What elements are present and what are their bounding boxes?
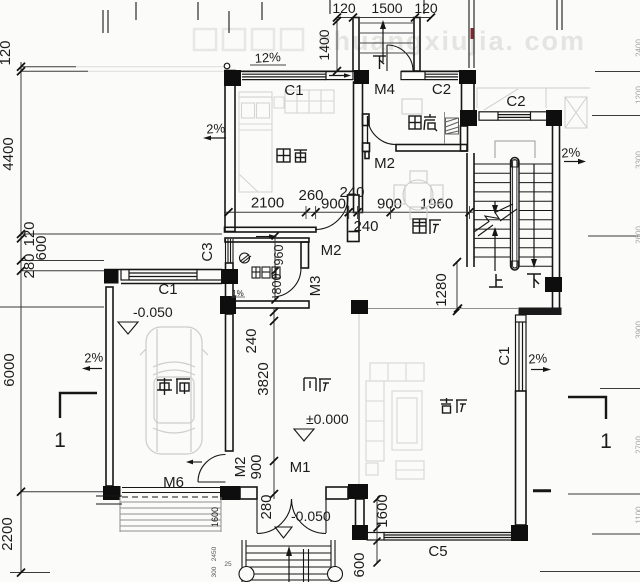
svg-text:2%: 2%: [206, 120, 226, 136]
svg-text:3300: 3300: [635, 151, 640, 169]
svg-text:1: 1: [600, 430, 612, 453]
svg-text:2%: 2%: [561, 144, 581, 160]
svg-text:2200: 2200: [0, 517, 16, 550]
svg-text:-0.050: -0.050: [291, 508, 331, 524]
wall: back stair landing east: [414, 18, 420, 72]
wall: living east below window: [516, 391, 527, 525]
room label: garage (che ku): [157, 378, 190, 395]
svg-text:C2: C2: [506, 93, 525, 110]
svg-text:C1: C1: [158, 281, 177, 298]
wall: kitchen east lower: [461, 126, 468, 151]
svg-text:4400: 4400: [0, 137, 17, 170]
left dimension line: [0, 62, 222, 573]
door M2 (garage-foyer): [198, 455, 226, 483]
column: stair SE: [545, 277, 562, 292]
svg-text:M2: M2: [321, 242, 342, 259]
svg-text:120: 120: [0, 40, 14, 65]
wall: kitchen south: [396, 145, 467, 152]
svg-text:6000: 6000: [1, 353, 18, 386]
room label: living (ke ting): [440, 398, 467, 413]
stair treads: [474, 164, 553, 266]
wall: stair east: [552, 126, 554, 308]
room label: foyer (men ting): [304, 378, 331, 392]
garage door M6 lines: [122, 488, 220, 493]
exterior ground lines near stair: [546, 87, 590, 89]
svg-text:M6: M6: [163, 474, 184, 491]
room label: bedroom (wo shi): [277, 149, 307, 162]
car (garage): [140, 327, 208, 454]
foyer/living light boundary: [358, 314, 360, 484]
top dimension ticks: [333, 14, 435, 76]
door M2 (kitchen): [367, 116, 369, 144]
svg-text:2%: 2%: [84, 349, 104, 365]
svg-text:3900: 3900: [635, 321, 640, 339]
small arrow near garage door: [190, 461, 202, 463]
svg-text:C1: C1: [496, 346, 513, 365]
wall: garage east / foyer west: [226, 314, 234, 451]
room label: dining (can ting): [413, 219, 441, 234]
svg-text:240: 240: [243, 328, 260, 353]
svg-text:960: 960: [272, 245, 286, 266]
right edge tiny dimension texts (clipped): [635, 39, 640, 524]
stair railing: [511, 158, 520, 271]
stair down arrow fragment (upper flight): [494, 201, 496, 209]
stair upper landing outline: [495, 141, 535, 158]
svg-text:C1: C1: [284, 82, 303, 99]
svg-text:M3: M3: [307, 276, 324, 297]
svg-text:1600: 1600: [210, 507, 220, 527]
svg-text:280: 280: [21, 253, 38, 278]
svg-text:2%: 2%: [528, 350, 548, 366]
wall: living north (solid): [519, 308, 562, 316]
section trace bar (near living room): [533, 489, 551, 492]
svg-text:1280: 1280: [433, 273, 450, 306]
svg-text:C5: C5: [428, 543, 447, 560]
wall: bathroom west below window: [226, 263, 234, 301]
column: foyer SE: [348, 484, 368, 499]
wall: garage north (outer+inner): [104, 269, 222, 271]
svg-text:900: 900: [248, 454, 265, 479]
wall: bedroom east / kitchen west: [354, 82, 363, 213]
svg-text:1600: 1600: [374, 494, 391, 527]
wardrobe (bedroom): [285, 90, 334, 113]
door M3 (bathroom): [272, 268, 301, 297]
slope arrow 12% inside sill: [329, 75, 347, 77]
wall: bedroom/kitchen north outer edge: [224, 70, 369, 72]
svg-text:300: 300: [211, 566, 218, 577]
svg-text:25: 25: [224, 561, 232, 568]
wall: bathroom north: [225, 238, 309, 242]
section mark 1 (left): [60, 393, 97, 418]
svg-text:M4: M4: [374, 81, 395, 98]
window C2 stair north: [479, 112, 547, 120]
right side extension lines: [540, 72, 640, 572]
svg-text:1500: 1500: [371, 0, 402, 16]
left dimension ticks: [17, 63, 25, 577]
svg-text:1400: 1400: [316, 29, 332, 60]
kitchen fridge: [402, 99, 422, 114]
dim 1600/600 right of entrance: [376, 499, 378, 563]
top dimension line (back stair): [337, 17, 431, 71]
bed (bedroom): [239, 92, 272, 192]
svg-text:C2: C2: [432, 81, 451, 98]
floor drain symbol: [240, 253, 252, 263]
wall: stair west: [466, 153, 468, 267]
column: garage NW: [104, 269, 119, 284]
wall: foyer south right piece: [326, 487, 348, 499]
column: bedroom NE: [354, 70, 369, 84]
top dimension labels 120 1500 120: [332, 0, 438, 16]
svg-text:M1: M1: [290, 459, 311, 476]
door M2 (bedroom south): [315, 197, 348, 230]
svg-text:1200: 1200: [635, 86, 640, 104]
svg-text:120: 120: [332, 0, 356, 16]
corridor slope arrow (under bedroom wall): [256, 236, 271, 238]
svg-text:260: 260: [298, 187, 323, 204]
window C3 bathroom west: [226, 239, 234, 263]
red mark on grid stub: [471, 28, 474, 39]
svg-text:280: 280: [258, 494, 275, 519]
svg-text:2600: 2600: [635, 226, 640, 244]
label UP (shang): [489, 274, 503, 287]
section mark 1 (right): [568, 397, 606, 419]
wall: bathroom south: [225, 301, 309, 308]
wall: bedroom west: [225, 71, 235, 232]
wall: stair north-west link: [461, 84, 463, 110]
column: living SW: [352, 525, 368, 540]
exterior planter with X at stair NE: [477, 88, 587, 128]
window C2 kitchen north with sill box: [401, 72, 458, 80]
watermark: [194, 26, 586, 56]
dim 1280 (stair-living opening): [456, 262, 458, 311]
column: kitchen NE: [459, 70, 476, 84]
svg-text:240: 240: [353, 218, 378, 235]
svg-text:1: 1: [54, 429, 66, 452]
driveway ramp hatch: [120, 497, 221, 532]
wall: back stair landing west: [353, 18, 359, 72]
wall: foyer south left piece: [240, 487, 257, 499]
column: corridor SE: [351, 300, 368, 314]
window C1 bedroom north: [242, 72, 353, 80]
wall: garage west: [106, 287, 113, 486]
kitchen counter + sink: [444, 112, 446, 144]
wall: living west jog: [356, 499, 365, 528]
column: living SE: [511, 525, 528, 541]
nightstand: [274, 97, 284, 108]
column: foyer SW: [220, 486, 240, 500]
column: stair NE: [546, 110, 562, 126]
svg-text:-0.050: -0.050: [133, 304, 173, 320]
svg-text:600: 600: [351, 552, 368, 577]
svg-text:2400: 2400: [635, 39, 640, 57]
svg-text:M2: M2: [232, 457, 249, 478]
svg-text:2450: 2450: [211, 546, 218, 561]
column: garage SW: [103, 486, 121, 500]
stair down line (right flight): [533, 164, 535, 263]
stair break line: [474, 204, 517, 236]
door M4 (back landing): [387, 45, 413, 71]
window C1 living east: [516, 315, 527, 391]
label DOWN (xia): [527, 274, 541, 288]
living room sofa set: [366, 363, 424, 479]
room label: bathroom (wei sheng jian) small: [252, 267, 280, 278]
wall: bathroom east upper: [301, 242, 309, 268]
svg-text:12%: 12%: [254, 49, 281, 66]
svg-text:C3: C3: [199, 242, 216, 261]
faint extension to wall: [76, 67, 224, 72]
porch lines left of garage: [96, 495, 122, 497]
svg-text:2100: 2100: [251, 195, 284, 212]
window C5 living south: [367, 533, 511, 541]
svg-text:1100: 1100: [635, 506, 640, 524]
living room north open boundary line: [368, 308, 518, 310]
column: bathroom west: [221, 269, 238, 284]
dining table + chairs: [394, 171, 443, 219]
window C1 garage north: [121, 270, 222, 281]
svg-text:±0.000: ±0.000: [306, 411, 349, 427]
svg-text:M2: M2: [374, 155, 395, 172]
room label: kitchen (chu fang): [409, 114, 437, 131]
stair up arrow (lower flight): [494, 231, 496, 271]
svg-text:2700: 2700: [635, 436, 640, 454]
wall: bedroom south: [225, 227, 317, 232]
wall: dining west stub: [348, 195, 360, 242]
label DOWN (xia) back stair: [373, 56, 386, 69]
column: garage NE: [220, 296, 236, 314]
svg-text:3820: 3820: [255, 362, 272, 395]
door M1 (entrance, double): [257, 499, 326, 534]
column: stair NW: [460, 110, 477, 126]
column: bedroom NW: [224, 70, 241, 86]
svg-text:240: 240: [339, 184, 364, 201]
svg-text:120: 120: [414, 0, 438, 16]
left dimension labels: [0, 40, 50, 550]
grid stub lines top: [103, 0, 562, 68]
grid bubble at bedroom NW column: [224, 63, 230, 69]
